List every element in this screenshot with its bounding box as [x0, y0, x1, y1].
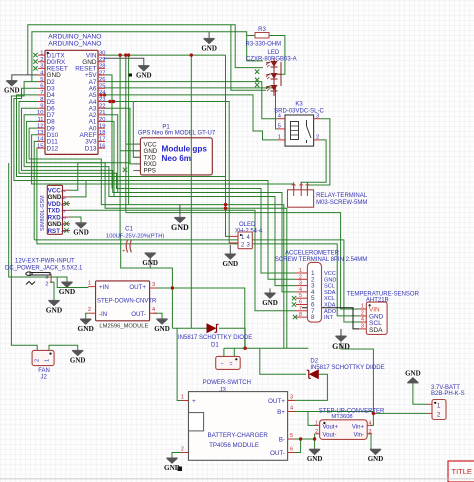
- svg-text:Vout-: Vout-: [323, 433, 337, 439]
- wire K3 pin3 to terminal: [307, 119, 330, 190]
- svg-text:6: 6: [62, 196, 68, 199]
- wire D5 lane: [19, 102, 296, 274]
- svg-text:6: 6: [299, 300, 302, 306]
- ground stepup left: [307, 449, 323, 463]
- wire top rail 1 branch to LED pin4: [231, 25, 266, 91]
- svg-text:21: 21: [99, 110, 105, 116]
- wire K3 pin2 to terminal: [301, 140, 326, 190]
- wire arduino A7 to K3 pin4: [104, 82, 278, 119]
- svg-text:GND: GND: [136, 71, 152, 79]
- wire D8 lane: [27, 121, 287, 348]
- wire out+ vertical: [171, 288, 173, 328]
- wire stepdown -IN to gnd: [86, 313, 89, 319]
- wire arduino GND pin29: [104, 58, 144, 65]
- svg-text:LM2596_MODULE: LM2596_MODULE: [99, 323, 148, 329]
- wire switch stub right: [233, 348, 235, 356]
- svg-text:8: 8: [311, 314, 315, 321]
- svg-text:100UF-25V-20%(PTH): 100UF-25V-20%(PTH): [106, 234, 164, 240]
- wire C1 rail: [34, 240, 359, 322]
- svg-text:30: 30: [99, 50, 105, 56]
- ground C1: [142, 253, 158, 267]
- svg-text:OUT+: OUT+: [268, 398, 285, 405]
- diode D2 schottky: [307, 358, 385, 379]
- wire sim800 GND2 wire: [70, 181, 86, 197]
- LED D3 rgb CZXR-80RGB03-A: [129, 50, 297, 96]
- svg-text:RELAY-TERMINAL: RELAY-TERMINAL: [316, 193, 368, 199]
- svg-text:~: ~: [221, 362, 224, 368]
- ground arduino pin29: [136, 66, 152, 80]
- svg-text:D12: D12: [47, 145, 59, 152]
- svg-text:SCREW TERMINAL 8PIN 2.54MM: SCREW TERMINAL 8PIN 2.54MM: [275, 257, 367, 263]
- ground accel: [262, 289, 278, 307]
- wire jack pin2 to gnd: [50, 282, 54, 300]
- svg-text:B-: B-: [279, 437, 285, 444]
- svg-text:GND: GND: [324, 277, 336, 283]
- wire charger B+ rail: [288, 411, 374, 413]
- wire top GND stub: [208, 32, 210, 39]
- svg-text:GPS Neo 6m MODEL GT-U7: GPS Neo 6m MODEL GT-U7: [138, 131, 216, 137]
- svg-text:GND: GND: [332, 342, 350, 351]
- svg-text:1: 1: [45, 359, 51, 362]
- svg-text:1: 1: [40, 50, 43, 56]
- svg-text:TP4056 MODULE: TP4056 MODULE: [209, 442, 259, 449]
- wire arduino left GND pin4: [12, 75, 38, 81]
- wire arduino VIN pin30: [104, 54, 226, 56]
- module U4 battery charger TP4056: [181, 392, 295, 461]
- wire stepup vout- stub wire: [314, 434, 316, 449]
- wire top rail 1: [28, 25, 263, 75]
- wire switch rail: [224, 347, 309, 349]
- svg-text:11: 11: [37, 117, 43, 123]
- svg-text:GND: GND: [59, 287, 75, 296]
- switch J3 power switch: [203, 356, 251, 393]
- svg-text:FAN: FAN: [38, 368, 50, 374]
- svg-text:ARDUINO_NANO: ARDUINO_NANO: [48, 34, 101, 41]
- svg-text:GND: GND: [201, 44, 217, 52]
- svg-text:Neo 6m: Neo 6m: [162, 154, 192, 163]
- wire vertical v128: [128, 55, 130, 205]
- svg-text:2: 2: [315, 429, 318, 435]
- svg-text:STEP-DOWN-CNVTR: STEP-DOWN-CNVTR: [97, 299, 157, 305]
- svg-text:2: 2: [88, 307, 91, 313]
- wire arduino +5V pin27: [104, 75, 112, 189]
- module U3 step-down converter LM2596: [88, 281, 157, 330]
- svg-text:GND: GND: [223, 260, 239, 268]
- svg-text:24: 24: [99, 90, 106, 96]
- svg-text:OUT+: OUT+: [129, 284, 146, 291]
- wire D6 lane: [22, 108, 297, 292]
- wire D3 lane: [14, 88, 296, 279]
- svg-text:GND: GND: [405, 370, 421, 378]
- svg-text:5: 5: [290, 433, 293, 439]
- wire D11 to C1 rail: [34, 141, 38, 240]
- wire fan pin1 gnd: [49, 345, 78, 350]
- connector J2 fan: [32, 350, 54, 380]
- svg-text:7: 7: [40, 90, 43, 96]
- svg-text:GND: GND: [262, 299, 278, 307]
- svg-text:ADO: ADO: [324, 309, 337, 315]
- ground top right: [201, 38, 217, 52]
- svg-text:RST: RST: [48, 228, 61, 235]
- svg-text:27: 27: [99, 70, 105, 76]
- svg-text:2: 2: [40, 57, 43, 63]
- svg-text:14: 14: [37, 137, 44, 143]
- svg-text:5: 5: [278, 124, 281, 130]
- svg-text:XDA: XDA: [324, 303, 336, 309]
- svg-text:8: 8: [40, 97, 43, 103]
- svg-text:17: 17: [99, 137, 105, 143]
- svg-text:13: 13: [37, 130, 43, 136]
- svg-text:GND: GND: [4, 86, 20, 94]
- ground stepup right: [368, 449, 384, 463]
- wire switch stub left: [223, 348, 225, 356]
- svg-text:25: 25: [99, 84, 105, 90]
- ground gps: [171, 217, 189, 232]
- svg-text:2: 2: [316, 135, 319, 141]
- svg-text:28: 28: [99, 64, 105, 70]
- wire D4 lane: [17, 95, 226, 177]
- svg-text:IN5817 SCHOTTKY DIODE: IN5817 SCHOTTKY DIODE: [178, 335, 252, 341]
- wire D1 rail left: [172, 327, 206, 329]
- wire D12 to AHT21B GND: [37, 148, 359, 316]
- wire aht21b sda black wire: [302, 308, 359, 329]
- svg-text:2: 2: [45, 282, 48, 288]
- wire gps GND stub wire: [120, 150, 140, 152]
- wire R3 left: [247, 35, 255, 37]
- svg-text:MT3608: MT3608: [331, 414, 352, 420]
- svg-text:23: 23: [99, 97, 105, 103]
- wire top rail 2: [32, 32, 263, 82]
- svg-text:1: 1: [181, 395, 184, 401]
- ground sim800: [73, 223, 89, 237]
- svg-text:4: 4: [369, 420, 372, 426]
- svg-text:PPS: PPS: [144, 168, 156, 175]
- svg-text:1: 1: [361, 304, 364, 310]
- ground stepdown out-: [154, 319, 170, 333]
- svg-text:10: 10: [37, 110, 43, 116]
- ground oled: [223, 245, 239, 268]
- svg-text:BATTERY-CHARGER: BATTERY-CHARGER: [208, 432, 269, 439]
- wire A5 to K3 pin1: [104, 95, 278, 140]
- svg-text:3: 3: [316, 114, 319, 120]
- wire D2 to fan rail: [11, 82, 38, 351]
- connector J6 OLED XH-2.54-4: [229, 222, 263, 249]
- module P1 GPS Neo 6m: [123, 125, 216, 175]
- wire rail to D2: [260, 348, 306, 374]
- svg-text:M03-SCREW-5MM: M03-SCREW-5MM: [316, 200, 367, 206]
- svg-text:Vin-: Vin-: [353, 433, 364, 439]
- svg-text:GND: GND: [368, 455, 384, 463]
- svg-text:1: 1: [299, 268, 302, 274]
- wire 12V jack pin3 rail: [50, 277, 67, 282]
- wire VIN to D1 rail vertical: [190, 55, 192, 328]
- svg-text:GND: GND: [171, 223, 189, 232]
- svg-text:D13: D13: [85, 145, 97, 152]
- svg-text:12V-EXT-PWR-INPUT: 12V-EXT-PWR-INPUT: [15, 259, 75, 265]
- ground jack right: [59, 282, 75, 296]
- svg-text:5: 5: [40, 77, 43, 83]
- connector J4 relay terminal M03-SCREW-5MM: [288, 182, 368, 207]
- svg-text:J2: J2: [41, 374, 48, 380]
- wire arduino A6 to K3 pin5: [104, 88, 278, 129]
- ground arduino left: [4, 81, 20, 95]
- svg-text:18: 18: [99, 130, 105, 136]
- svg-text:INT: INT: [324, 315, 334, 321]
- svg-text:GND: GND: [142, 259, 158, 267]
- wire right tall vertical: [341, 342, 373, 425]
- wire A4 to OLED pin2: [104, 102, 229, 243]
- svg-text:D1: D1: [211, 342, 219, 348]
- ground fan: [70, 350, 86, 364]
- module U5 step-up converter MT3608: [315, 408, 385, 439]
- wire R3 right to LED right: [269, 36, 285, 75]
- wire sim800 RXD gnd wire: [70, 217, 81, 223]
- wire A4 branch to gps TXD: [133, 102, 140, 158]
- relay K3 SRD-03VDC-SL-C: [274, 101, 324, 146]
- svg-text:26: 26: [99, 77, 105, 83]
- svg-text:3: 3: [62, 216, 68, 219]
- svg-text:3: 3: [40, 64, 43, 70]
- wire jack pin3 branch to +IN: [57, 277, 88, 288]
- svg-text:12: 12: [37, 123, 43, 129]
- wire vertical v120: [119, 55, 121, 240]
- svg-text:Module gps: Module gps: [162, 145, 208, 154]
- svg-text:C1: C1: [125, 227, 133, 233]
- svg-text:2: 2: [361, 310, 364, 316]
- wire A3 to gps RXD: [104, 108, 140, 164]
- ground jack below: [46, 300, 62, 314]
- wire stepdown out+ rail right: [172, 288, 244, 348]
- wire aht21b gnd black stem: [340, 329, 342, 336]
- capacitor C1: [106, 227, 164, 255]
- svg-text:8: 8: [299, 312, 302, 318]
- svg-text:OUT-: OUT-: [270, 450, 285, 457]
- svg-text:3: 3: [369, 429, 372, 435]
- wire battery gnd to pin1: [413, 383, 427, 405]
- arduino nano pins: [33, 50, 106, 152]
- wire gps gnd drop: [179, 205, 181, 218]
- wire D2 out: [288, 374, 328, 400]
- ground battery: [405, 370, 421, 383]
- wire sim800 VCC wire: [70, 163, 130, 190]
- svg-text:4: 4: [62, 210, 68, 213]
- wire charger pin2 gnd wire: [172, 453, 189, 459]
- svg-text:3: 3: [45, 275, 48, 281]
- svg-text:OLED: OLED: [239, 222, 256, 228]
- svg-text:XCL: XCL: [324, 296, 335, 302]
- svg-text:TITLE: TITLE: [452, 467, 472, 476]
- svg-text:7: 7: [62, 190, 68, 193]
- svg-text:IN5817 SCHOTTKY DIODE: IN5817 SCHOTTKY DIODE: [310, 365, 384, 371]
- svg-text:Vout+: Vout+: [323, 424, 339, 430]
- svg-text:7: 7: [299, 306, 302, 312]
- wire stepdown out+ rail: [153, 287, 172, 289]
- wire D7 lane: [24, 115, 296, 286]
- svg-text:4: 4: [361, 317, 364, 323]
- svg-text:GND: GND: [77, 324, 93, 333]
- svg-text:20: 20: [99, 117, 105, 123]
- diode D1 schottky: [178, 323, 252, 348]
- svg-text:SDA: SDA: [369, 327, 383, 334]
- svg-text:29: 29: [99, 57, 105, 63]
- svg-text:Vin+: Vin+: [352, 424, 365, 430]
- svg-text:2: 2: [299, 274, 302, 280]
- svg-text:=: =: [230, 362, 233, 368]
- svg-text:GND: GND: [154, 325, 170, 333]
- ground charger pin2: [164, 458, 180, 472]
- svg-text:4: 4: [152, 307, 155, 313]
- wire charger B- rail: [288, 438, 315, 440]
- wire oled pin1 wire: [226, 55, 230, 236]
- wire A2 pin21: [104, 115, 118, 193]
- sheet mark bottom: [0, 467, 474, 479]
- wire D1 rail right: [219, 328, 245, 348]
- wire gps VCC stub wire: [126, 143, 141, 145]
- svg-text:3: 3: [299, 281, 302, 287]
- svg-text:D2: D2: [310, 358, 318, 364]
- ground aht21b: [332, 336, 350, 351]
- svg-text:1: 1: [88, 281, 91, 287]
- svg-text:3: 3: [361, 323, 364, 329]
- svg-text:-IN: -IN: [99, 311, 107, 318]
- svg-text:1: 1: [278, 135, 281, 141]
- svg-text:16: 16: [99, 143, 105, 149]
- svg-text:19: 19: [99, 123, 105, 129]
- module U2 SIM800L GSM: [40, 185, 70, 235]
- svg-text:6: 6: [290, 447, 293, 453]
- wire C1 gnd stem: [149, 258, 151, 269]
- wire C1 gnd loop: [121, 240, 173, 288]
- svg-text:SDA: SDA: [324, 290, 336, 296]
- svg-text:+: +: [122, 249, 125, 255]
- svg-text:GND: GND: [73, 229, 89, 237]
- svg-text:4: 4: [299, 287, 302, 293]
- svg-text:2: 2: [181, 447, 184, 453]
- sensor U6 AHT21B: [347, 291, 420, 334]
- svg-text:3: 3: [290, 395, 293, 401]
- svg-text:+IN: +IN: [99, 284, 109, 291]
- wire stepup vin- gnd wire: [369, 434, 372, 449]
- svg-text:4: 4: [290, 406, 293, 412]
- connector J1 DC power jack: [5, 259, 83, 288]
- svg-text:POWER-SWITCH: POWER-SWITCH: [203, 380, 251, 386]
- svg-text:VCC: VCC: [324, 271, 336, 277]
- svg-text:1: 1: [315, 420, 318, 426]
- svg-text:GND: GND: [46, 306, 62, 315]
- connector J5 battery B2B-PH-K-S: [427, 385, 465, 420]
- svg-text:5: 5: [299, 293, 302, 299]
- wire battery pin2 rail: [373, 412, 427, 414]
- svg-text:+: +: [192, 398, 196, 405]
- svg-text:K3: K3: [295, 101, 303, 107]
- svg-text:SCL: SCL: [324, 284, 335, 290]
- svg-text:GND: GND: [70, 356, 86, 364]
- wire A1 pin20: [104, 121, 114, 196]
- svg-text:DC_POWER_JACK_5.5X2.1: DC_POWER_JACK_5.5X2.1: [5, 266, 83, 272]
- op-amp U1 arduino nano: [45, 34, 101, 155]
- svg-text:2: 2: [35, 359, 41, 362]
- ground stepdown -IN: [77, 319, 93, 333]
- wire charger out- wire: [288, 439, 301, 453]
- wire stepup vout+ wire: [308, 412, 316, 426]
- svg-text:LED: LED: [268, 50, 280, 56]
- wire stepdown out- gnd: [153, 313, 162, 319]
- wire sim800 TXD to accel pin7: [70, 210, 296, 310]
- svg-text:6: 6: [40, 84, 43, 90]
- svg-text:GND: GND: [307, 455, 323, 463]
- resistor R3: [246, 27, 282, 47]
- wire left rail to jack: [9, 163, 50, 277]
- svg-text:22: 22: [99, 104, 105, 110]
- svg-text:B+: B+: [277, 409, 285, 416]
- svg-text:3: 3: [152, 282, 155, 288]
- wire AHT21B VIN lane: [126, 213, 359, 309]
- title block: [448, 461, 474, 482]
- svg-text:R3-330-OHM: R3-330-OHM: [246, 41, 282, 47]
- svg-text:SIM800L-GSM: SIM800L-GSM: [40, 195, 46, 231]
- svg-text:OUT-: OUT-: [131, 311, 146, 318]
- svg-text:15: 15: [37, 143, 43, 149]
- wire D1 left drop to charger pin1: [177, 328, 188, 400]
- svg-text:9: 9: [40, 104, 43, 110]
- svg-text:TEMPERATURE-SENSOR: TEMPERATURE-SENSOR: [347, 291, 420, 297]
- svg-text:B2B-PH-K-S: B2B-PH-K-S: [431, 391, 465, 397]
- connector J7 accelerometer screw terminal: [275, 250, 367, 322]
- svg-text:ACCELEROMETER: ACCELEROMETER: [285, 250, 340, 256]
- wire vertical v125: [125, 55, 127, 213]
- svg-text:P1: P1: [162, 125, 170, 131]
- wire D9 lane: [29, 128, 284, 348]
- wire D10 to relay terminal mid: [32, 135, 294, 190]
- svg-text:ARDUINO_NANO: ARDUINO_NANO: [48, 41, 101, 48]
